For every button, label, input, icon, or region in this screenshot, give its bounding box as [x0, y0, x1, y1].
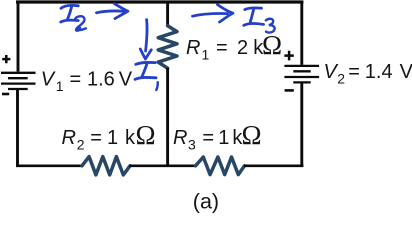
svg-text:V: V — [119, 69, 133, 91]
annotation current I3 subscript 3 — [266, 19, 275, 33]
svg-text:R: R — [173, 127, 187, 149]
battery V2 plate long lower — [284, 76, 319, 78]
battery V2 plus sign — [284, 51, 293, 61]
wire left upper (top rail to V1) — [17, 1, 20, 72]
svg-text:=: = — [216, 37, 228, 59]
wire bottom middle segment — [130, 164, 197, 167]
resistor R2 zigzag — [82, 157, 130, 175]
battery V2 plate short — [293, 70, 310, 72]
svg-text:2: 2 — [337, 70, 345, 86]
battery V1 minus sign — [2, 93, 9, 96]
annotation I1 arrow down — [140, 20, 151, 59]
resistor R1 zigzag — [158, 26, 177, 68]
svg-text:2: 2 — [77, 136, 85, 152]
wire right lower (V2 to bottom rail) — [300, 82, 303, 167]
svg-text:2: 2 — [237, 37, 248, 59]
svg-text:1.4: 1.4 — [365, 61, 393, 83]
battery V1 plate long lower — [1, 82, 36, 84]
resistor R3 zigzag — [196, 157, 245, 175]
svg-text:1: 1 — [218, 127, 229, 149]
wire middle lower (R1 to bottom rail) — [166, 68, 169, 167]
battery V2 plate short bottom — [293, 81, 310, 83]
wire bottom left segment — [16, 164, 83, 167]
wire left lower (V1 to bottom rail) — [16, 89, 19, 167]
svg-text:1: 1 — [56, 78, 64, 94]
svg-text:=: = — [202, 127, 214, 149]
annotation current I3 glyph — [244, 8, 264, 26]
svg-text:Ω: Ω — [262, 30, 282, 60]
svg-text:k: k — [125, 127, 136, 149]
wire bottom right segment — [244, 164, 303, 167]
annotation current I2 glyph — [61, 5, 79, 22]
svg-text:3: 3 — [188, 136, 196, 152]
battery V1 plate short — [8, 77, 28, 79]
wire middle upper (top rail to R1) — [166, 1, 169, 26]
battery V2 plate long top — [284, 65, 319, 67]
svg-text:V: V — [41, 69, 56, 91]
svg-text:1: 1 — [107, 127, 118, 149]
battery V2 minus sign — [285, 89, 294, 92]
svg-text:R: R — [186, 37, 200, 59]
svg-text:=: = — [70, 69, 82, 91]
wire right upper (top rail to V2) — [300, 1, 303, 65]
annotation current I1 glyph — [135, 62, 156, 79]
svg-text:=: = — [348, 61, 360, 83]
svg-text:=: = — [90, 127, 102, 149]
battery V1 plate long top — [1, 72, 36, 74]
svg-text:Ω: Ω — [242, 120, 262, 150]
svg-text:R: R — [62, 127, 76, 149]
annotation current I2 subscript 2 — [75, 16, 86, 30]
wire top rail — [16, 0, 303, 3]
annotation current I1 subscript 1 — [156, 82, 157, 90]
svg-text:1: 1 — [202, 46, 210, 62]
annotation I2 arrow — [97, 4, 128, 19]
svg-text:(a): (a) — [193, 190, 219, 214]
svg-text:V: V — [400, 61, 412, 83]
svg-text:1.6: 1.6 — [87, 69, 115, 91]
battery V1 plus sign — [2, 55, 10, 63]
svg-text:Ω: Ω — [136, 120, 156, 150]
annotation I3 arrow — [193, 5, 233, 22]
battery V1 plate short bottom — [8, 88, 28, 90]
